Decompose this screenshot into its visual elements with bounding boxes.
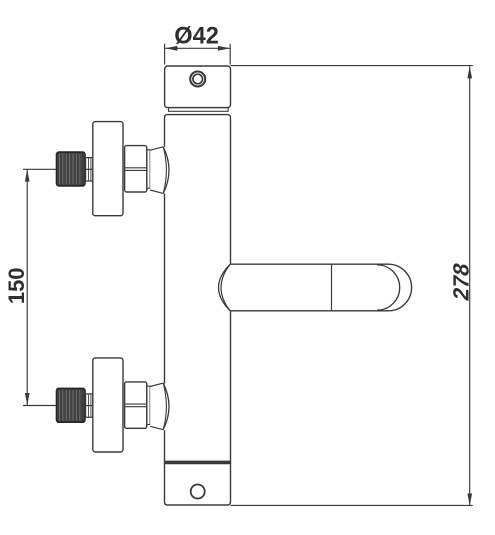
svg-text:Ø42: Ø42 — [174, 24, 219, 50]
svg-text:278: 278 — [449, 261, 474, 303]
svg-text:150: 150 — [4, 267, 29, 304]
